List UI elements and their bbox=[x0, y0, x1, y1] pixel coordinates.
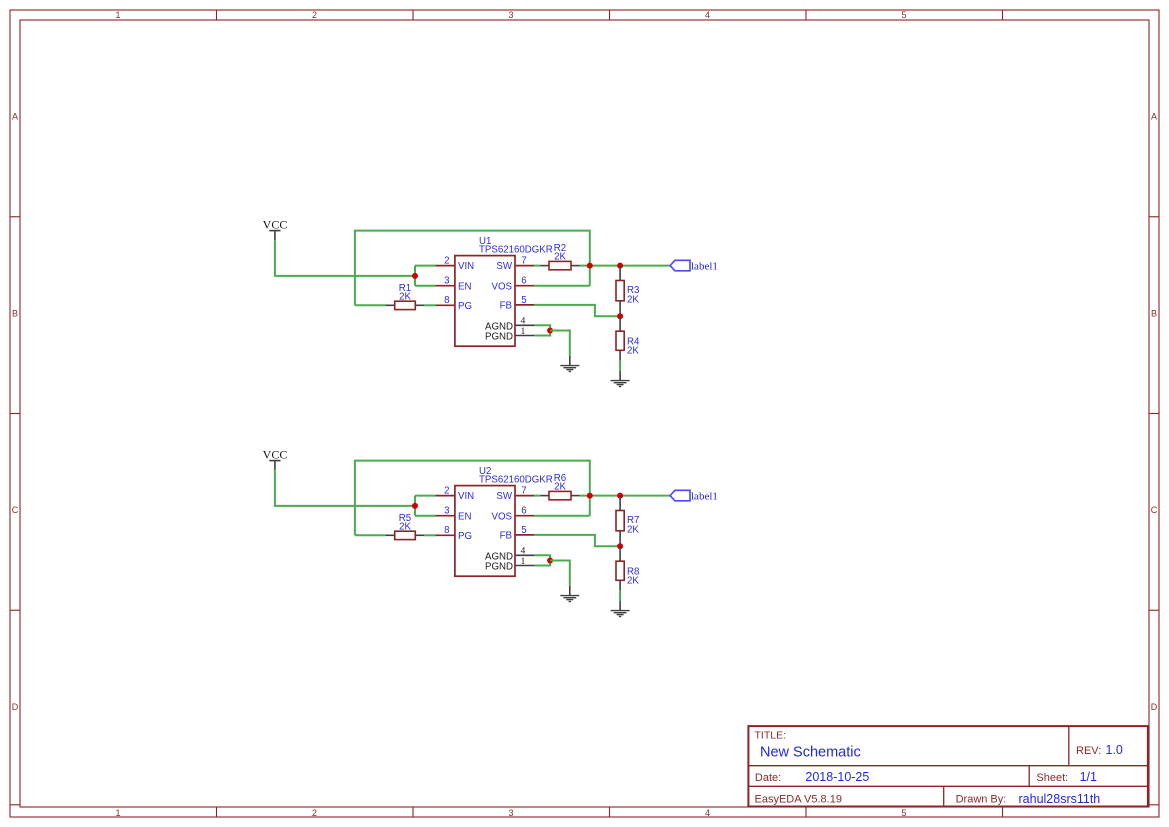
svg-text:EN: EN bbox=[458, 511, 471, 522]
junction AGND/PGND tie (U1 circuit) bbox=[547, 328, 553, 334]
wire tie to ground (U2 circuit) bbox=[550, 561, 570, 586]
wire R4 to ground (U1 circuit) bbox=[619, 360, 621, 371]
wire PG feedback loop to top (U2 circuit) bbox=[355, 461, 590, 536]
svg-text:4: 4 bbox=[521, 316, 526, 327]
junction SW node (U2 circuit) bbox=[587, 493, 593, 499]
svg-text:PGND: PGND bbox=[485, 332, 513, 343]
svg-text:Drawn By:: Drawn By: bbox=[956, 793, 1007, 805]
pin 3 EN of U1 bbox=[436, 276, 472, 293]
svg-text:TITLE:: TITLE: bbox=[755, 730, 787, 742]
ground for AGND/PGND (U2 circuit) bbox=[560, 586, 579, 602]
title block bbox=[748, 726, 1148, 806]
svg-text:2K: 2K bbox=[627, 346, 639, 357]
svg-text:7: 7 bbox=[521, 486, 526, 497]
net label label1 (U2 circuit) bbox=[670, 490, 718, 502]
svg-text:6: 6 bbox=[521, 276, 526, 287]
svg-text:VCC: VCC bbox=[263, 447, 288, 461]
svg-text:PG: PG bbox=[458, 301, 472, 312]
wire to pin EN (U2 circuit) bbox=[415, 515, 436, 517]
wire VCC to junction (U1 circuit) bbox=[275, 240, 415, 276]
svg-text:2: 2 bbox=[312, 10, 317, 20]
svg-text:TPS62160DGKR: TPS62160DGKR bbox=[479, 245, 553, 256]
svg-text:6: 6 bbox=[521, 506, 526, 517]
svg-text:2018-10-25: 2018-10-25 bbox=[805, 770, 869, 784]
svg-text:4: 4 bbox=[705, 10, 710, 20]
wire R6 to net label (U2 circuit) bbox=[580, 495, 671, 497]
svg-text:C: C bbox=[1151, 505, 1158, 515]
svg-text:2: 2 bbox=[444, 256, 449, 267]
svg-text:B: B bbox=[12, 309, 18, 319]
svg-text:2K: 2K bbox=[627, 294, 639, 305]
svg-text:VOS: VOS bbox=[492, 511, 513, 522]
frame column labels (bottom) bbox=[115, 808, 906, 818]
svg-text:Sheet:: Sheet: bbox=[1036, 772, 1068, 784]
svg-text:2K: 2K bbox=[399, 291, 411, 302]
pin 1 PGND of U2 bbox=[485, 556, 535, 573]
svg-text:5: 5 bbox=[521, 295, 526, 306]
resistor R4 2K bbox=[616, 317, 640, 360]
svg-text:3: 3 bbox=[444, 506, 449, 517]
title block EasyEDA version field bbox=[755, 793, 842, 805]
pin 6 VOS of U1 bbox=[492, 276, 534, 293]
svg-text:label1: label1 bbox=[691, 260, 718, 272]
svg-text:3: 3 bbox=[508, 808, 513, 818]
resistor R6 2K bbox=[540, 473, 579, 500]
ground under R4 bbox=[611, 371, 630, 387]
svg-text:1.0: 1.0 bbox=[1106, 743, 1123, 757]
svg-text:2: 2 bbox=[444, 486, 449, 497]
svg-text:7: 7 bbox=[521, 256, 526, 267]
resistor R7 2K bbox=[616, 497, 639, 547]
frame row labels (left) bbox=[12, 112, 19, 713]
wire pin SW to resistor R2 (U1 circuit) bbox=[534, 265, 540, 267]
pin 6 VOS of U2 bbox=[492, 506, 534, 523]
wire to pin VIN (U1 circuit) bbox=[415, 265, 436, 267]
wire tie to ground (U1 circuit) bbox=[550, 331, 570, 356]
svg-text:VCC: VCC bbox=[263, 217, 288, 231]
svg-text:EN: EN bbox=[458, 281, 471, 292]
svg-text:PGND: PGND bbox=[485, 562, 513, 573]
svg-text:VOS: VOS bbox=[492, 281, 513, 292]
wire R1 to pin PG (U1 circuit) bbox=[424, 304, 435, 306]
svg-text:TPS62160DGKR: TPS62160DGKR bbox=[479, 475, 553, 486]
resistor R8 2K bbox=[616, 547, 639, 590]
IC U2 TPS62160DGKR body bbox=[455, 466, 553, 576]
power symbol VCC (U2 circuit) bbox=[263, 447, 288, 470]
wire pin SW to resistor R6 (U2 circuit) bbox=[534, 495, 540, 497]
pin 2 VIN of U2 bbox=[436, 486, 475, 503]
junction FB node (U1 circuit) bbox=[617, 313, 623, 319]
wire PG feedback loop to top (U1 circuit) bbox=[355, 231, 590, 306]
wire to pin VIN (U2 circuit) bbox=[415, 495, 436, 497]
svg-text:A: A bbox=[12, 112, 18, 122]
svg-text:VIN: VIN bbox=[458, 491, 474, 502]
resistor R5 2K bbox=[385, 513, 424, 540]
wire top loop to pin VOS (U2 circuit) bbox=[534, 515, 590, 517]
pin 8 PG of U1 bbox=[436, 295, 473, 312]
wire pin FB to divider (U1 circuit) bbox=[534, 305, 620, 316]
pin 3 EN of U2 bbox=[436, 506, 472, 523]
svg-text:label1: label1 bbox=[691, 490, 718, 502]
junction AGND/PGND tie (U2 circuit) bbox=[547, 558, 553, 564]
title block REV field bbox=[1076, 743, 1123, 757]
svg-text:5: 5 bbox=[521, 525, 526, 536]
pin 5 FB of U1 bbox=[500, 295, 534, 312]
svg-text:1/1: 1/1 bbox=[1080, 770, 1097, 784]
svg-text:REV:: REV: bbox=[1076, 745, 1101, 757]
svg-text:Date:: Date: bbox=[755, 772, 781, 784]
svg-text:2K: 2K bbox=[627, 524, 639, 535]
IC U1 TPS62160DGKR body bbox=[455, 236, 553, 346]
wire to R5 left (U2 circuit) bbox=[355, 534, 385, 536]
svg-text:A: A bbox=[1151, 112, 1157, 122]
svg-text:4: 4 bbox=[521, 546, 526, 557]
wire pin FB to divider (U2 circuit) bbox=[534, 535, 620, 546]
wire R2 to net label (U1 circuit) bbox=[580, 265, 671, 267]
svg-text:2: 2 bbox=[312, 808, 317, 818]
svg-text:New Schematic: New Schematic bbox=[760, 745, 861, 761]
svg-text:2K: 2K bbox=[554, 481, 566, 492]
pin 8 PG of U2 bbox=[436, 525, 473, 542]
svg-text:1: 1 bbox=[521, 556, 526, 567]
junction at R3 top (U1 circuit) bbox=[617, 263, 623, 269]
wire to R1 left (U1 circuit) bbox=[355, 304, 385, 306]
svg-text:8: 8 bbox=[444, 295, 449, 306]
pin 7 SW of U1 bbox=[496, 256, 534, 273]
wire top loop to pin VOS (U1 circuit) bbox=[534, 285, 590, 287]
svg-text:1: 1 bbox=[521, 326, 526, 337]
svg-text:D: D bbox=[12, 702, 19, 712]
resistor R1 2K bbox=[385, 283, 424, 310]
svg-text:FB: FB bbox=[500, 531, 512, 542]
pin 7 SW of U2 bbox=[496, 486, 534, 503]
svg-text:1: 1 bbox=[115, 808, 120, 818]
title block Sheet field bbox=[1036, 770, 1097, 784]
junction on VCC wire (U2 circuit) bbox=[412, 503, 418, 509]
pin 4 AGND of U2 bbox=[485, 546, 535, 563]
svg-text:4: 4 bbox=[705, 808, 710, 818]
pin 5 FB of U2 bbox=[500, 525, 534, 542]
title block Date field bbox=[755, 770, 869, 784]
junction on VCC wire (U1 circuit) bbox=[412, 273, 418, 279]
ground under R8 bbox=[611, 601, 630, 617]
svg-text:2K: 2K bbox=[627, 576, 639, 587]
pin 2 VIN of U1 bbox=[436, 256, 475, 273]
svg-text:2K: 2K bbox=[554, 251, 566, 262]
svg-text:SW: SW bbox=[496, 491, 512, 502]
svg-text:B: B bbox=[1151, 309, 1157, 319]
title block Drawn By field bbox=[956, 792, 1101, 806]
wire R5 to pin PG (U2 circuit) bbox=[424, 534, 435, 536]
ground for AGND/PGND (U1 circuit) bbox=[560, 356, 579, 372]
svg-text:C: C bbox=[12, 505, 19, 515]
svg-text:SW: SW bbox=[496, 261, 512, 272]
frame column labels (top) bbox=[115, 10, 906, 20]
svg-text:VIN: VIN bbox=[458, 261, 474, 272]
svg-text:PG: PG bbox=[458, 531, 472, 542]
svg-text:FB: FB bbox=[500, 301, 512, 312]
resistor R3 2K bbox=[616, 267, 639, 317]
svg-text:8: 8 bbox=[444, 525, 449, 536]
junction at R7 top (U2 circuit) bbox=[617, 493, 623, 499]
net label label1 (U1 circuit) bbox=[670, 260, 718, 272]
wire vertical VIN-EN tie (U1 circuit) bbox=[414, 266, 416, 286]
svg-text:2K: 2K bbox=[399, 521, 411, 532]
wire to pin EN (U1 circuit) bbox=[415, 285, 436, 287]
pin 1 PGND of U1 bbox=[485, 326, 535, 343]
junction SW node (U1 circuit) bbox=[587, 263, 593, 269]
wire AGND/PGND stubs tie (U1 circuit) bbox=[535, 325, 550, 335]
svg-text:1: 1 bbox=[115, 10, 120, 20]
svg-text:rahul28srs11th: rahul28srs11th bbox=[1019, 792, 1101, 806]
title block TITLE field bbox=[755, 730, 861, 761]
wire R8 to ground (U2 circuit) bbox=[619, 590, 621, 601]
svg-text:3: 3 bbox=[444, 276, 449, 287]
svg-text:5: 5 bbox=[901, 808, 906, 818]
svg-text:3: 3 bbox=[508, 10, 513, 20]
pin 4 AGND of U1 bbox=[485, 316, 535, 333]
svg-text:5: 5 bbox=[901, 10, 906, 20]
wire VCC to junction (U2 circuit) bbox=[275, 470, 415, 506]
svg-text:EasyEDA V5.8.19: EasyEDA V5.8.19 bbox=[755, 793, 842, 805]
junction FB node (U2 circuit) bbox=[617, 543, 623, 549]
power symbol VCC (U1 circuit) bbox=[263, 217, 288, 240]
wire AGND/PGND stubs tie (U2 circuit) bbox=[535, 555, 550, 565]
frame row labels (right) bbox=[1151, 112, 1158, 713]
svg-text:D: D bbox=[1151, 702, 1158, 712]
resistor R2 2K bbox=[540, 243, 579, 270]
wire vertical VIN-EN tie (U2 circuit) bbox=[414, 496, 416, 516]
